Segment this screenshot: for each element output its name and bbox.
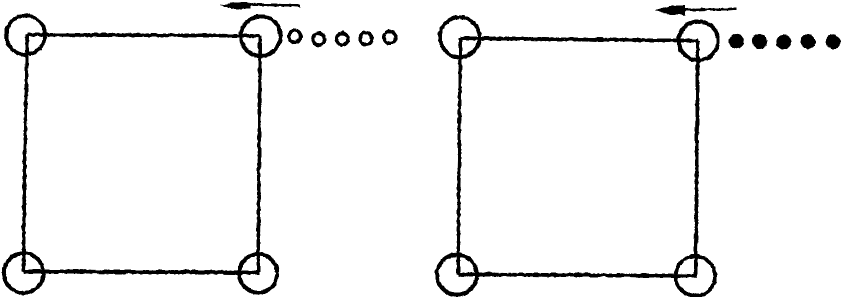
node: filled dot 5 after right square xyxy=(825,34,840,49)
node: left square top-right corner circle xyxy=(240,16,280,56)
node: open dot 2 after left square xyxy=(312,33,324,45)
node: filled dot 3 after right square xyxy=(776,34,791,49)
wire: left square left edge xyxy=(23,34,27,271)
node: right square bottom-left corner circle xyxy=(436,254,476,294)
arrow: left-pointing arrow above right square, shaft xyxy=(680,7,736,10)
wire: left square bottom edge xyxy=(23,271,258,272)
node: right square top-right corner circle xyxy=(678,21,717,60)
wire: right square left edge xyxy=(458,38,460,274)
arrow: left-pointing arrow above left square, head xyxy=(220,2,251,9)
node: right square top-left corner circle xyxy=(439,17,479,57)
node: filled dot 2 after right square xyxy=(752,34,767,49)
wire: right square right edge xyxy=(695,40,697,275)
node: right square bottom-right corner circle xyxy=(675,256,715,296)
wire: right square bottom edge xyxy=(458,274,696,275)
node: left square bottom-right corner circle xyxy=(238,254,276,292)
node: left square bottom-left corner circle xyxy=(3,253,43,293)
node: open dot 5 after left square xyxy=(383,31,395,43)
node: left square top-left corner circle xyxy=(6,15,45,54)
wire: left square right edge xyxy=(258,35,260,272)
arrow: left-pointing arrow above left square, shaft xyxy=(244,4,300,5)
node: open dot 3 after left square xyxy=(336,33,348,45)
node: open dot 1 after left square xyxy=(288,30,300,42)
node: open dot 4 after left square xyxy=(359,32,371,44)
node: filled dot 4 after right square xyxy=(800,34,815,49)
wire: left square top edge xyxy=(27,34,260,35)
arrow: left-pointing arrow above right square, head xyxy=(655,5,685,15)
node: filled dot 1 after right square xyxy=(729,33,744,48)
wire: right square top edge xyxy=(460,38,698,40)
